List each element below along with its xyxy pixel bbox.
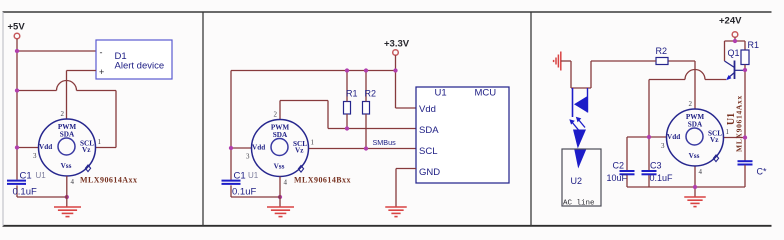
label MLX90614Bxx — [294, 176, 351, 185]
power terminal +5V — [14, 33, 20, 39]
ground left panel — [54, 207, 81, 217]
svg-text:Q1: Q1 — [728, 48, 740, 58]
svg-text:SDA: SDA — [419, 125, 439, 136]
svg-text:R2: R2 — [656, 46, 668, 56]
pin numbers U1 right — [661, 100, 730, 176]
capacitor C1 middle — [222, 181, 241, 184]
svg-text:-: - — [100, 48, 103, 58]
label R1 — [346, 89, 358, 99]
svg-text:C3: C3 — [650, 161, 662, 171]
wire +24V tee — [725, 37, 746, 61]
tab marker diamond U1 left — [85, 165, 90, 172]
resistor R2 middle — [363, 71, 370, 150]
AC line box U2 — [562, 149, 601, 208]
junction dots left — [15, 49, 69, 199]
resistor R2 right — [591, 58, 668, 65]
svg-text:3: 3 — [661, 142, 665, 150]
label C2 10uF — [607, 161, 628, 184]
label R2 right — [656, 46, 668, 56]
svg-text:Vss: Vss — [61, 162, 72, 170]
opto triac U2 — [569, 88, 587, 169]
power terminal +3.3V — [393, 50, 399, 56]
capacitor C1 left — [7, 181, 26, 184]
svg-text:C2: C2 — [613, 161, 625, 171]
svg-text:R1: R1 — [346, 89, 358, 99]
ground sensor middle — [267, 207, 294, 217]
wire ground rail right — [627, 166, 745, 197]
svg-text:MLX90614Axx: MLX90614Axx — [735, 95, 744, 152]
wire Vdd pin middle — [231, 147, 252, 149]
svg-text:SMBus: SMBus — [373, 138, 397, 147]
svg-text:Vdd: Vdd — [419, 104, 436, 115]
svg-text:Vdd: Vdd — [39, 143, 52, 151]
svg-text:C1: C1 — [20, 171, 32, 182]
svg-text:1: 1 — [311, 139, 315, 147]
svg-text:4: 4 — [284, 179, 288, 187]
resistor R1 middle — [344, 71, 351, 129]
ground right panel — [684, 197, 706, 207]
wire Vdd net right — [627, 137, 667, 187]
svg-text:10uF: 10uF — [607, 173, 628, 183]
wire AC loop — [561, 61, 591, 88]
wire ground rail left — [17, 176, 67, 207]
wire Vdd to SCL with hop — [17, 81, 116, 148]
wire D1 plus to sensor PWM — [67, 71, 97, 120]
wire Vdd pin 3 — [17, 147, 39, 149]
svg-text:R1: R1 — [748, 40, 760, 50]
svg-text:3: 3 — [33, 152, 37, 160]
sensor can outline U1 left — [39, 119, 96, 176]
wire +5V rail left — [16, 39, 18, 197]
wire PWM to R2 — [668, 61, 695, 109]
svg-text:1: 1 — [98, 138, 102, 146]
label MLX90614Axx left — [80, 176, 137, 185]
svg-text:MCU: MCU — [475, 88, 497, 99]
svg-text:Vdd: Vdd — [252, 144, 265, 152]
wire SDA net — [280, 101, 416, 129]
pin numbers U1 middle — [246, 111, 315, 187]
wire zener base net — [744, 70, 746, 161]
svg-text:Vss: Vss — [274, 163, 285, 171]
svg-text:+: + — [99, 67, 104, 77]
svg-text:Alert device: Alert device — [115, 61, 165, 72]
label R1 right — [748, 40, 760, 50]
label 0.1uF middle — [232, 187, 256, 198]
svg-text:2: 2 — [689, 100, 693, 108]
svg-text:GND: GND — [419, 167, 440, 178]
svg-text:SCL: SCL — [419, 146, 437, 157]
label C3 0.1uF — [650, 161, 674, 184]
wire +3.3V stub — [395, 55, 397, 70]
net +3.3V label — [384, 39, 410, 50]
svg-text:+3.3V: +3.3V — [384, 39, 410, 50]
svg-text:Vz: Vz — [710, 136, 719, 144]
svg-text:Vz: Vz — [295, 147, 304, 155]
svg-text:4: 4 — [699, 168, 703, 176]
net +24V label — [719, 16, 742, 27]
svg-text:4: 4 — [71, 178, 75, 186]
tab marker diamond U1 middle — [298, 166, 303, 173]
svg-text:SDA: SDA — [60, 131, 75, 139]
MCU U1 box — [416, 87, 509, 183]
svg-text:Vdd: Vdd — [667, 133, 680, 141]
capacitor C* — [738, 161, 753, 187]
svg-text:2: 2 — [61, 110, 65, 118]
svg-text:0.1uF: 0.1uF — [232, 187, 256, 198]
sensor can outline U1 middle — [252, 120, 309, 177]
junction dots middle — [229, 68, 398, 199]
wire MCU GND — [396, 169, 416, 207]
svg-text:C1: C1 — [234, 171, 246, 182]
wire emitter to Vdd rail with hop — [649, 70, 726, 188]
svg-text:MLX90614Bxx: MLX90614Bxx — [294, 176, 351, 185]
svg-text:U1: U1 — [248, 171, 259, 180]
transistor Q1 — [725, 61, 745, 81]
svg-text:MLX90614Axx: MLX90614Axx — [80, 176, 137, 185]
label C* — [757, 167, 767, 177]
pin labels U1 left — [39, 123, 94, 170]
wire top rail middle — [231, 71, 416, 198]
svg-text:SDA: SDA — [688, 121, 703, 129]
label C1 U1 left — [20, 171, 47, 182]
sensor can outline U1 right — [667, 109, 724, 166]
svg-text:Vss: Vss — [689, 152, 700, 160]
svg-text:AC line: AC line — [563, 200, 595, 208]
svg-text:U1: U1 — [435, 88, 447, 99]
capacitor C3 — [642, 171, 657, 174]
wire to D1 minus — [17, 50, 96, 52]
svg-text:1: 1 — [726, 128, 730, 136]
label R2 — [365, 89, 377, 99]
wire SCL pin right — [724, 137, 746, 139]
earth symbol AC — [554, 52, 561, 71]
label U1 MLX90614Axx vertical — [726, 95, 744, 152]
svg-text:C*: C* — [757, 167, 767, 177]
ground MCU — [385, 207, 407, 217]
svg-text:2: 2 — [274, 111, 278, 119]
resistor R1 right — [741, 50, 749, 70]
label C1 U1 middle — [234, 171, 259, 182]
svg-text:Vz: Vz — [82, 146, 91, 154]
wire ground rail middle — [231, 177, 280, 207]
svg-text:U2: U2 — [571, 176, 583, 186]
net +5V label — [8, 22, 26, 33]
svg-text:3: 3 — [246, 153, 250, 161]
svg-text:0.1uF: 0.1uF — [13, 187, 37, 198]
pin numbers U1 left — [33, 110, 102, 186]
wire SCL net — [309, 148, 417, 150]
tab marker diamond U1 right — [713, 155, 718, 162]
label 0.1uF left — [13, 187, 37, 198]
pin labels U1 middle — [252, 124, 307, 171]
label Q1 — [728, 48, 740, 58]
svg-text:0.1uF: 0.1uF — [650, 173, 674, 183]
svg-text:U1: U1 — [36, 171, 47, 180]
pin labels U1 right — [667, 113, 722, 160]
svg-text:SDA: SDA — [273, 131, 288, 139]
junction dots right — [647, 39, 747, 189]
label SMBus — [373, 138, 397, 147]
svg-text:+24V: +24V — [719, 16, 742, 27]
svg-text:+5V: +5V — [8, 22, 26, 33]
alert device D1 box — [96, 40, 172, 79]
capacitor C2 — [620, 171, 635, 174]
svg-text:R2: R2 — [365, 89, 377, 99]
power terminal +24V — [732, 32, 738, 38]
